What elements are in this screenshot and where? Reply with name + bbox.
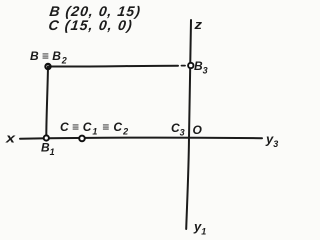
node C (point marker)	[79, 136, 85, 142]
wire B to B1 (left of rectangle)	[46, 67, 48, 136]
svg-text:x: x	[5, 131, 16, 146]
svg-text:C (15, 0, 0): C (15, 0, 0)	[48, 17, 134, 33]
node B1 (point marker)	[44, 135, 49, 140]
svg-text:z: z	[193, 17, 202, 32]
z / y1 axis wire	[186, 20, 191, 229]
svg-text:O: O	[193, 123, 203, 137]
node B (point marker)	[45, 64, 50, 69]
wire B to B3 (top of rectangle)	[48, 65, 178, 68]
node B3 (point marker)	[188, 63, 193, 68]
x / y3 axis wire	[20, 138, 262, 139]
wire dash before B3	[182, 65, 186, 67]
